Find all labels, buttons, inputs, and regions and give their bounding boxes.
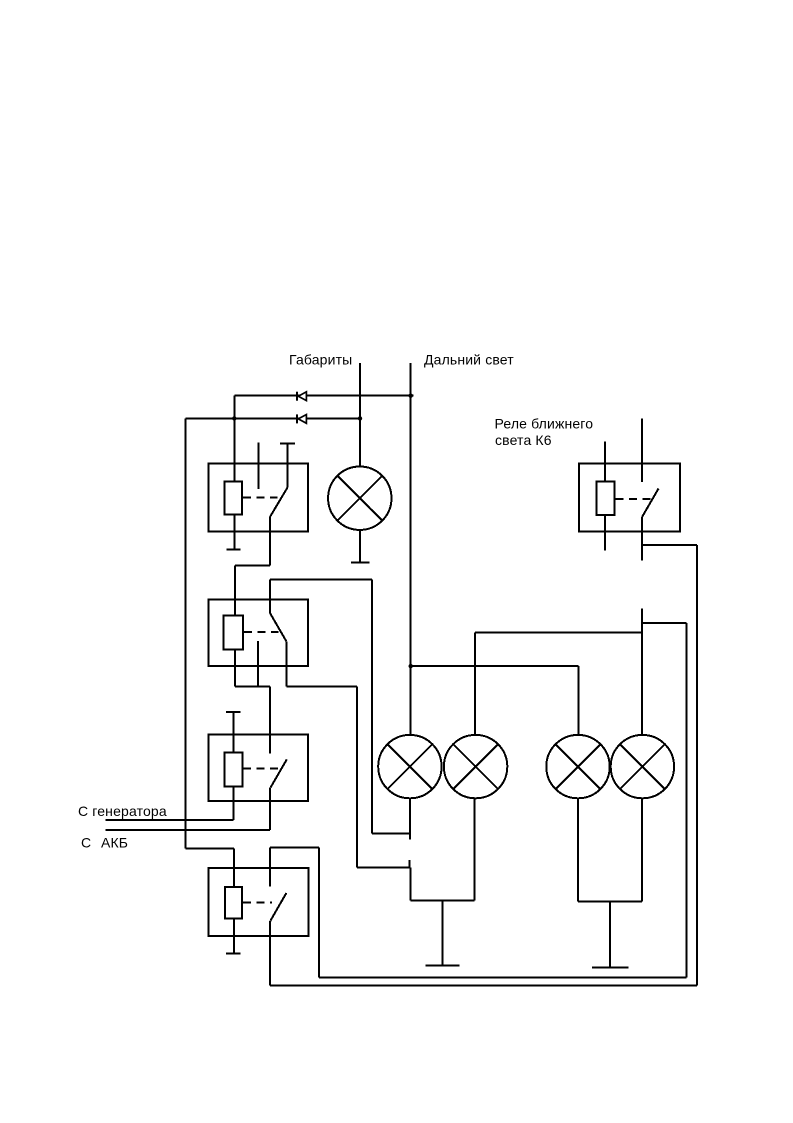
wire: relay1 coil feed vertical xyxy=(233,396,235,482)
relay K3 switch blade xyxy=(271,759,287,787)
wire: relay K1 middle contact stub xyxy=(258,442,260,489)
relay K4 coil-blade dashed link xyxy=(243,902,272,904)
wire: inner bottom horizontal xyxy=(319,976,687,978)
ground bar right lamp pair xyxy=(592,966,629,968)
wire: relay K6 coil top stub xyxy=(604,442,606,482)
wire: relay K4 coil bottom xyxy=(233,918,235,953)
wire: lamp3 feed vertical xyxy=(577,666,579,736)
wire: relay K1 coil bottom xyxy=(233,514,235,549)
wire: С АКБ horizontal xyxy=(106,829,270,831)
relay K6 coil-blade dashed link xyxy=(616,498,653,500)
svg-text:Габариты: Габариты xyxy=(289,352,352,368)
wire: lamp HL5 bottom xyxy=(359,530,361,563)
relay K3 coil xyxy=(225,753,243,787)
wire: relay K6 coil bottom stub xyxy=(604,515,606,551)
wire: outer bottom horizontal xyxy=(270,984,697,986)
wire: relay K2 blade pivot vertical xyxy=(285,641,287,686)
relay K1 box xyxy=(209,464,309,532)
wire: lamp4 feed vertical xyxy=(641,609,643,736)
node: junction dot Габариты/lower branch xyxy=(358,416,362,420)
wire: lamp HL3 bottom xyxy=(577,798,579,901)
ground bar below lamp HL5 xyxy=(351,562,369,564)
svg-text:Дальний свет: Дальний свет xyxy=(424,352,514,368)
wire: inner right vertical xyxy=(686,623,688,978)
relay K1 coil xyxy=(225,482,242,515)
wire: upper diode branch horizontal xyxy=(234,395,413,397)
wire: Габариты feed vertical xyxy=(359,363,361,468)
diode VD2 xyxy=(298,415,306,424)
wire: vertical right of relay K4 xyxy=(318,847,320,977)
terminal T-bar relay K1 xyxy=(280,442,295,444)
wire: stub above corner xyxy=(409,860,411,868)
wire: relay K3 coil bottom xyxy=(232,786,234,820)
wire: relay K2 top contact vertical xyxy=(269,579,271,613)
wire: relay K2 coil bottom xyxy=(234,650,236,687)
wire: horizontal lamp2 feed xyxy=(475,632,642,634)
wire: relay K4 top contact xyxy=(269,847,271,886)
relay K1 coil-blade dashed link xyxy=(243,496,278,498)
relay K3 coil-blade dashed link xyxy=(243,767,279,769)
wire: lamp HL4 bottom xyxy=(641,798,643,901)
relay K2 coil xyxy=(224,616,244,650)
wire: lamp2 feed vertical xyxy=(474,633,476,736)
lamp HL3 xyxy=(546,735,609,798)
relay K2 switch blade xyxy=(270,613,286,641)
wire: relay K3 top contact feed xyxy=(269,687,271,754)
relay K4 switch blade xyxy=(270,893,286,921)
wire: bottom horizontal left lamp pair xyxy=(410,899,474,901)
diode VD1 xyxy=(298,392,306,401)
ground bar below relay K1 xyxy=(226,549,240,551)
wire: lamp HL2 bottom xyxy=(474,798,476,900)
wire: relay K1 fixed contact xyxy=(287,443,289,487)
wire: relay K2 top contact horizontal xyxy=(270,578,372,580)
wire: long vertical to lamps common xyxy=(356,687,358,868)
wire: ground drop right pair xyxy=(609,901,611,967)
svg-text:АКБ: АКБ xyxy=(101,835,128,851)
relay K2 box xyxy=(209,599,309,666)
ground bar below relay K4 xyxy=(226,953,241,955)
wire: relay K3 coil feed xyxy=(232,712,234,753)
wire: relay K6 fixed contact xyxy=(641,418,643,482)
wire: relay K4 blade pivot vertical xyxy=(269,921,271,986)
lamp HL5 (габариты indicator) xyxy=(328,467,391,530)
node: junction dot lower branch / relay1 coil feed xyxy=(232,416,236,420)
wire: relay K6 blade pivot vertical xyxy=(641,516,643,560)
ground bar left lamp pair xyxy=(425,964,459,966)
relay K6 box xyxy=(579,463,680,531)
wire: relay K2 middle contact xyxy=(257,641,259,687)
wire: left vertical to relay K4 coil horizontal xyxy=(186,847,234,849)
wire: relay K4 contact horizontal xyxy=(270,846,319,848)
wire: relay K6 blade branch horizontal xyxy=(643,544,697,546)
wire: left tall vertical xyxy=(185,418,187,848)
wire: bus horizontal relay K2 to relay K3 xyxy=(235,686,270,688)
node: junction dot Дальний / lamp3 branch xyxy=(409,664,413,668)
wire: relay K1 to relay K2 horizontal xyxy=(235,564,270,566)
wire: horizontal common to lamps bottom xyxy=(357,866,410,868)
wire: relay K1 to relay K2 vertical xyxy=(234,565,236,615)
wire: relay K3 blade pivot vertical xyxy=(269,787,271,830)
wire: С генератора horizontal xyxy=(106,819,234,821)
svg-text:Реле ближнего: Реле ближнего xyxy=(495,416,594,432)
terminal T-bar relay K3 xyxy=(226,711,241,713)
wire: bottom horizontal right lamp pair xyxy=(578,900,642,902)
wire: long vertical to lamp1 bottom xyxy=(371,579,373,833)
wire: Дальний свет feed vertical xyxy=(410,363,412,736)
node: junction dot Дальний/upper branch xyxy=(409,394,413,398)
wire: vertical corner piece xyxy=(409,867,411,900)
wire: relay K4 coil feed xyxy=(233,848,235,887)
wire: horizontal to lamp3 xyxy=(411,665,579,667)
relay K4 coil xyxy=(225,887,242,919)
relay K4 box xyxy=(209,868,309,936)
relay K1 switch blade xyxy=(270,488,288,518)
wire: outer right vertical xyxy=(696,545,698,985)
relay K6 coil xyxy=(597,481,615,515)
lamp HL1 xyxy=(378,735,441,798)
svg-text:света К6: света К6 xyxy=(495,432,552,448)
wire: lower diode branch horizontal xyxy=(186,417,361,419)
wire: horizontal relay K2 blade to lamps xyxy=(286,686,357,688)
svg-text:С генератора: С генератора xyxy=(78,803,167,819)
lamp HL4 xyxy=(611,735,674,798)
wire: ground drop left pair xyxy=(441,900,443,965)
wire: horizontal lamp4 feed to inner right vertical xyxy=(641,622,687,624)
wire: lamp HL1 bottom xyxy=(409,798,411,839)
wire: horizontal to lamp1 bottom xyxy=(372,832,410,834)
wire: relay K1 blade pivot vertical xyxy=(269,517,271,565)
lamp HL2 xyxy=(444,735,507,798)
relay K3 box xyxy=(209,735,309,801)
relay K6 switch blade xyxy=(642,489,658,517)
relay K2 coil-blade dashed link xyxy=(244,631,279,633)
svg-text:С: С xyxy=(81,835,91,851)
